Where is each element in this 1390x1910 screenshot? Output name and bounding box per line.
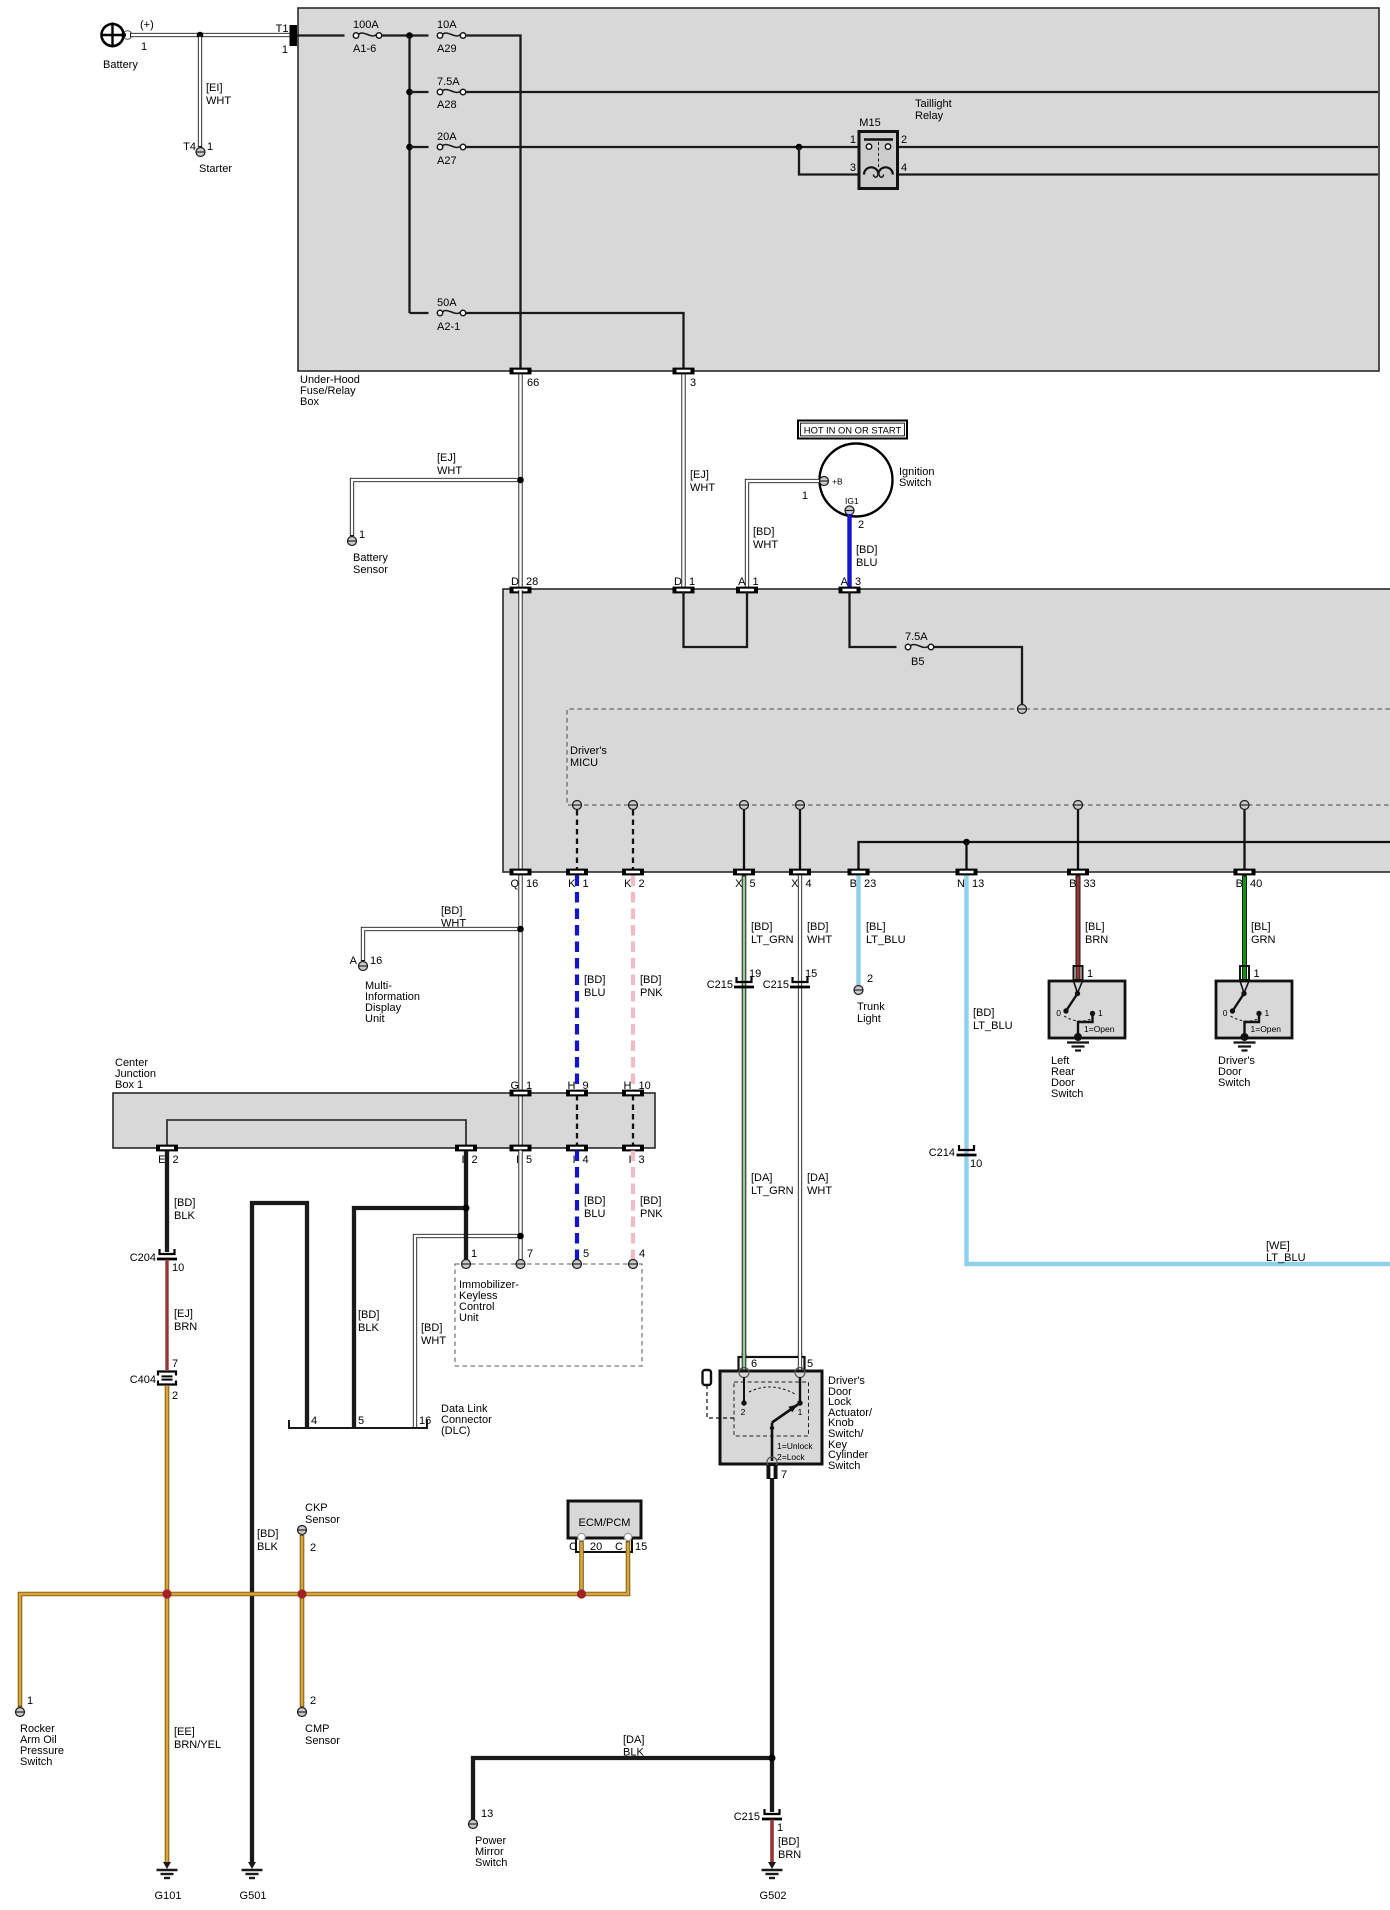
wire B40 internal — [1243, 810, 1245, 869]
wire H9 to I4 inside box (dashed) — [576, 1095, 578, 1146]
svg-text:WHT: WHT — [206, 95, 231, 107]
svg-text:1: 1 — [850, 134, 856, 146]
svg-text:IG1: IG1 — [845, 496, 859, 506]
thick black wire G501 riser and DLC pin 4 loop — [252, 1203, 307, 1864]
terminal IG1 pin 2 — [845, 496, 864, 531]
wire B5 to MICU internal terminal — [934, 647, 1022, 704]
svg-text:1: 1 — [777, 1822, 783, 1834]
svg-text:C: C — [615, 1541, 623, 1553]
svg-text:[DA]: [DA] — [623, 1734, 644, 1746]
svg-text:15: 15 — [805, 968, 817, 980]
svg-text:GRN: GRN — [1251, 934, 1276, 946]
svg-text:BLK: BLK — [623, 1747, 644, 1759]
svg-text:Switch: Switch — [899, 477, 931, 489]
svg-text:100A: 100A — [353, 19, 379, 31]
wire E2 to I2 inside junction box — [167, 1120, 466, 1148]
inline connector C215 pin 19 — [707, 968, 762, 991]
svg-text:7.5A: 7.5A — [437, 76, 460, 88]
wire K1 internal (dashed) — [576, 810, 578, 869]
svg-text:5: 5 — [750, 878, 756, 890]
svg-text:1: 1 — [802, 490, 808, 502]
svg-text:20: 20 — [590, 1541, 602, 1553]
svg-text:BLK: BLK — [358, 1322, 379, 1334]
svg-text:3: 3 — [639, 1154, 645, 1166]
wire 10A output down to pin 66 — [466, 36, 521, 370]
svg-text:2: 2 — [639, 878, 645, 890]
svg-text:(+): (+) — [140, 19, 154, 31]
svg-text:1=Unlock: 1=Unlock — [777, 1441, 813, 1451]
svg-text:BLU: BLU — [856, 557, 877, 569]
svg-text:[DA]: [DA] — [751, 1172, 772, 1184]
wire relay pin 4 to box edge — [897, 173, 1378, 175]
wire E2 down (BLK) — [167, 1151, 195, 1253]
wire — [410, 146, 429, 148]
wire Q16 to G1 (WHT double) — [441, 876, 521, 1094]
svg-text:3: 3 — [855, 576, 861, 588]
svg-text:2: 2 — [172, 1390, 178, 1402]
svg-text:Battery: Battery — [353, 552, 388, 564]
svg-text:40: 40 — [1250, 878, 1262, 890]
svg-text:1: 1 — [753, 576, 759, 588]
svg-text:[BD]: [BD] — [358, 1309, 379, 1321]
svg-text:1: 1 — [689, 576, 695, 588]
wire I5 to immobilizer pin 7 (WHT double) — [518, 1151, 522, 1261]
svg-text:A1-6: A1-6 — [353, 43, 376, 55]
svg-text:1: 1 — [1265, 1008, 1270, 1018]
power mirror switch terminal 13 — [469, 1808, 508, 1869]
svg-text:4: 4 — [806, 878, 812, 890]
internal bus wire to B23 — [859, 842, 1390, 869]
terminal +B pin 1 — [802, 477, 843, 503]
svg-text:[EJ]: [EJ] — [437, 452, 456, 464]
terminal X4 internal — [796, 801, 805, 810]
svg-text:[EI]: [EI] — [206, 82, 223, 94]
svg-text:WHT: WHT — [421, 1335, 446, 1347]
svg-text:A28: A28 — [437, 99, 457, 111]
svg-text:Q: Q — [510, 878, 519, 890]
svg-text:[WE]: [WE] — [1266, 1240, 1290, 1252]
svg-text:[BD]: [BD] — [257, 1528, 278, 1540]
connector B23 — [848, 869, 870, 876]
svg-text:2: 2 — [867, 973, 873, 985]
svg-text:1: 1 — [1254, 968, 1260, 980]
svg-text:[EJ]: [EJ] — [690, 469, 709, 481]
svg-text:G101: G101 — [155, 1890, 182, 1902]
svg-text:Starter: Starter — [199, 163, 232, 175]
wire relay pin 2 to box edge — [897, 146, 1378, 148]
wire X5 internal — [743, 810, 745, 869]
svg-text:G501: G501 — [240, 1890, 267, 1902]
svg-text:[BL]: [BL] — [866, 921, 886, 933]
svg-text:PNK: PNK — [640, 987, 663, 999]
ground G502 — [760, 1862, 787, 1902]
svg-text:LT_BLU: LT_BLU — [973, 1020, 1013, 1032]
Driver's MICU box — [503, 589, 1390, 872]
svg-text:C215: C215 — [707, 979, 733, 991]
svg-text:[BD]: [BD] — [640, 1195, 661, 1207]
wire IG1 to A3 (BLU) — [850, 514, 878, 589]
svg-text:WHT: WHT — [807, 934, 832, 946]
junction node battery/starter — [197, 32, 204, 39]
svg-text:1: 1 — [526, 1080, 532, 1092]
wire N13 internal — [965, 842, 967, 869]
connector K1 — [566, 869, 588, 876]
wire I4 to immobilizer pin 5 (BLU dashed) — [577, 1151, 605, 1261]
terminal B5 output — [1018, 705, 1027, 714]
svg-text:Sensor: Sensor — [305, 1735, 340, 1747]
svg-text:CMP: CMP — [305, 1723, 329, 1735]
svg-text:2: 2 — [901, 134, 907, 146]
svg-text:9: 9 — [583, 1080, 589, 1092]
svg-text:10A: 10A — [437, 19, 457, 31]
wire — [410, 91, 429, 93]
wire — [382, 34, 429, 36]
junction node MID branch — [517, 926, 524, 933]
wire to starter (WHT double line) — [200, 35, 231, 147]
svg-text:[BL]: [BL] — [1085, 921, 1105, 933]
svg-text:CKP: CKP — [305, 1502, 328, 1514]
svg-text:2: 2 — [173, 1154, 179, 1166]
junction node N13 — [963, 839, 970, 846]
svg-text:2: 2 — [741, 1407, 746, 1417]
connector Q16 — [510, 869, 532, 876]
terminal A16 multi-information display unit — [350, 955, 420, 1025]
svg-text:16: 16 — [370, 955, 382, 967]
wire D28 to Q16 inside MICU (WHT double) — [518, 590, 522, 871]
inline connector C404 — [130, 1358, 178, 1402]
fuse 10A A29 — [437, 19, 466, 55]
svg-text:10: 10 — [970, 1158, 982, 1170]
Center Junction Box 1 — [113, 1093, 655, 1148]
svg-text:C204: C204 — [130, 1252, 156, 1264]
wire 20A to relay pin 1 — [466, 146, 860, 148]
svg-text:[BD]: [BD] — [584, 1195, 605, 1207]
rocker arm oil pressure switch terminal — [16, 1695, 65, 1768]
svg-text:10: 10 — [172, 1262, 184, 1274]
svg-text:A27: A27 — [437, 155, 457, 167]
svg-text:Taillight: Taillight — [915, 98, 952, 110]
svg-text:Sensor: Sensor — [353, 564, 388, 576]
svg-text:13: 13 — [972, 878, 984, 890]
svg-text:Battery: Battery — [103, 59, 138, 71]
wire G1 to I5 through box (WHT double) — [518, 1093, 522, 1148]
wire branch to relay pin 3 — [799, 147, 860, 175]
svg-text:Switch: Switch — [1051, 1088, 1083, 1100]
svg-text:E: E — [158, 1154, 165, 1166]
junction node — [406, 89, 413, 96]
svg-text:HOT IN ON OR START: HOT IN ON OR START — [804, 425, 902, 436]
svg-text:[BD]: [BD] — [973, 1007, 994, 1019]
svg-text:1: 1 — [798, 1407, 803, 1417]
key cylinder symbol — [703, 1370, 735, 1418]
svg-text:[EE]: [EE] — [174, 1726, 195, 1738]
svg-text:15: 15 — [635, 1541, 647, 1553]
svg-text:WHT: WHT — [807, 1185, 832, 1197]
immobilizer terminal 1 — [462, 1260, 471, 1269]
vertical fuse bus — [408, 36, 410, 314]
wire K2 internal (dashed) — [632, 810, 634, 869]
svg-text:7: 7 — [172, 1358, 178, 1370]
wire C215 to G502 (BRN) — [772, 1820, 801, 1865]
svg-text:Box 1: Box 1 — [115, 1079, 143, 1091]
left rear door switch — [1049, 981, 1125, 1100]
svg-text:2: 2 — [858, 519, 864, 531]
svg-text:PNK: PNK — [640, 1208, 663, 1220]
immobilizer terminal 4 — [629, 1260, 638, 1269]
wire I5 branch to DLC pin 16 (WHT double) — [415, 1236, 521, 1428]
driver's door lock actuator box — [720, 1368, 873, 1473]
HOT IN ON OR START tag — [798, 421, 907, 439]
svg-text:5: 5 — [526, 1154, 532, 1166]
wire B40 to driver's door switch (GRN) — [1245, 876, 1276, 982]
ignition switch — [820, 444, 935, 517]
connector G1 — [510, 1090, 532, 1097]
svg-text:66: 66 — [527, 377, 539, 389]
connector N13 — [956, 869, 978, 876]
svg-text:H: H — [624, 1080, 632, 1092]
svg-text:6: 6 — [751, 1358, 757, 1370]
fuse 7.5A A28 — [437, 76, 466, 111]
svg-text:MICU: MICU — [570, 757, 598, 769]
svg-text:C215: C215 — [734, 1811, 760, 1823]
driver's door switch connector pin 1 — [1240, 966, 1260, 980]
svg-text:1: 1 — [282, 44, 288, 56]
svg-text:D: D — [511, 576, 519, 588]
wire B33 to left rear door switch (BRN) — [1078, 876, 1108, 982]
svg-text:7: 7 — [781, 1469, 787, 1481]
wire +B to A1 (WHT double) — [747, 481, 821, 589]
junction node bus/C404 wire — [162, 1589, 171, 1598]
svg-text:Trunk: Trunk — [857, 1001, 885, 1013]
svg-text:C404: C404 — [130, 1374, 156, 1386]
svg-text:Light: Light — [857, 1013, 881, 1025]
svg-text:Unit: Unit — [459, 1312, 479, 1324]
fuse 100A A1-6 — [353, 19, 382, 55]
svg-text:T4: T4 — [183, 141, 196, 153]
trunk light terminal — [854, 973, 885, 1025]
svg-text:B: B — [850, 878, 857, 890]
svg-text:(DLC): (DLC) — [441, 1425, 470, 1437]
svg-text:3: 3 — [850, 162, 856, 174]
Driver's MICU inner dashed boundary — [567, 709, 1390, 805]
connector 3 — [673, 368, 695, 375]
svg-text:G: G — [510, 1080, 519, 1092]
connector B33 — [1067, 869, 1089, 876]
connector B40 — [1234, 869, 1256, 876]
svg-text:Relay: Relay — [915, 110, 944, 122]
wire 50A output down to pin 3 — [466, 313, 684, 369]
terminal K2 internal — [629, 801, 638, 810]
svg-text:Sensor: Sensor — [305, 1514, 340, 1526]
wire A3 to fuse B5 — [850, 592, 897, 647]
wire D1 to A1 inside MICU — [684, 592, 748, 647]
svg-text:[BD]: [BD] — [174, 1197, 195, 1209]
svg-text:A29: A29 — [437, 43, 457, 55]
terminal B40 internal — [1240, 801, 1249, 810]
wire H10 to I3 inside box (dashed) — [632, 1095, 634, 1146]
svg-text:1: 1 — [141, 41, 147, 53]
connector A1 — [736, 587, 758, 594]
svg-text:1=Open: 1=Open — [1084, 1024, 1115, 1034]
svg-text:[BD]: [BD] — [640, 974, 661, 986]
svg-text:1: 1 — [27, 1695, 33, 1707]
inline connector C215 pin 1 — [734, 1809, 783, 1834]
connector H9 — [566, 1090, 588, 1097]
wire X5 down to door lock pin 6 (LT_GRN) — [744, 876, 794, 1372]
svg-text:[BD]: [BD] — [807, 921, 828, 933]
CMP sensor terminal — [298, 1695, 341, 1747]
svg-text:D: D — [674, 576, 682, 588]
svg-text:4: 4 — [311, 1415, 317, 1427]
junction node bus/C20 wire — [577, 1589, 586, 1598]
ground G501 — [240, 1862, 267, 1902]
horizontal BRN/YEL bus — [20, 1541, 628, 1707]
svg-text:4: 4 — [901, 162, 907, 174]
connector I2 — [455, 1145, 477, 1152]
wire to battery sensor (WHT double) — [352, 480, 521, 536]
junction node door lock / power mirror — [769, 1755, 776, 1762]
inline connector C215 pin 15 — [763, 968, 818, 991]
svg-text:BRN: BRN — [174, 1321, 197, 1333]
svg-text:M15: M15 — [859, 117, 880, 129]
wire B23 to trunk light (LT_BLU) — [859, 876, 906, 986]
wire 3 to D1 (WHT double) — [684, 375, 716, 590]
svg-text:LT_GRN: LT_GRN — [751, 934, 794, 946]
terminal X5 internal — [740, 801, 749, 810]
svg-text:BLU: BLU — [584, 1208, 605, 1220]
svg-text:WHT: WHT — [753, 539, 778, 551]
ECM/PCM — [568, 1501, 641, 1538]
svg-text:C215: C215 — [763, 979, 789, 991]
ECM connector strip C20 / C15 — [569, 1539, 647, 1553]
inline connector C204 pin 10 — [130, 1249, 185, 1274]
wire I3 to immobilizer pin 4 (PNK dashed) — [633, 1151, 663, 1261]
thick black wire DLC pin 5 to I2 junction — [354, 1208, 466, 1428]
svg-text:BRN/YEL: BRN/YEL — [174, 1739, 221, 1751]
fuse 50A A2-1 — [437, 297, 466, 333]
svg-text:[BL]: [BL] — [1251, 921, 1271, 933]
svg-text:1=Open: 1=Open — [1251, 1024, 1282, 1034]
svg-text:1: 1 — [471, 1248, 477, 1260]
svg-text:23: 23 — [864, 878, 876, 890]
svg-text:1: 1 — [359, 529, 365, 541]
connector I5 — [510, 1145, 532, 1152]
wire N13 (LT_BLU) long run — [967, 876, 1390, 1265]
svg-text:B: B — [1069, 878, 1076, 890]
taillight relay M15 — [850, 98, 952, 189]
svg-text:1: 1 — [583, 878, 589, 890]
svg-text:Box: Box — [300, 396, 319, 408]
junction node relay branch — [796, 144, 803, 151]
svg-text:T1: T1 — [276, 23, 289, 35]
svg-text:[BD]: [BD] — [856, 544, 877, 556]
connector A3 — [839, 587, 861, 594]
svg-text:Switch: Switch — [1218, 1077, 1250, 1089]
svg-text:C214: C214 — [929, 1147, 955, 1159]
wire 66 to D28 (WHT double) — [437, 375, 521, 590]
wire pin 7 down to C215 (BLK) — [770, 1479, 774, 1812]
left rear door switch connector pin 1 — [1074, 966, 1094, 980]
svg-text:13: 13 — [481, 1808, 493, 1820]
svg-text:[BD]: [BD] — [441, 905, 462, 917]
svg-text:4: 4 — [583, 1154, 589, 1166]
terminal K1 internal — [573, 801, 582, 810]
wire BLK to G501 label — [257, 1528, 278, 1553]
wire C404 to G101 (BRN/YEL) — [167, 1385, 221, 1864]
svg-text:A: A — [841, 576, 849, 588]
svg-text:LT_BLU: LT_BLU — [866, 934, 906, 946]
connector 66 — [510, 368, 532, 375]
wire 50A branch — [410, 312, 429, 314]
svg-text:C: C — [569, 1541, 577, 1553]
door lock pin 7 connector — [767, 1465, 788, 1481]
svg-text:7.5A: 7.5A — [905, 631, 928, 643]
connector T1 — [276, 23, 297, 56]
wire B33 internal — [1077, 810, 1079, 869]
svg-text:[BD]: [BD] — [584, 974, 605, 986]
svg-text:A: A — [738, 576, 746, 588]
connector I3 — [622, 1145, 644, 1152]
terminal B33 internal — [1074, 801, 1083, 810]
connector K2 — [622, 869, 644, 876]
svg-text:2: 2 — [472, 1154, 478, 1166]
power mirror switch wire (BLK) — [473, 1734, 772, 1820]
svg-text:LT_GRN: LT_GRN — [751, 1185, 794, 1197]
driver's door switch — [1216, 981, 1292, 1089]
connector E2 — [156, 1145, 178, 1152]
svg-text:28: 28 — [526, 576, 538, 588]
svg-text:ECM/PCM: ECM/PCM — [579, 1517, 631, 1529]
ECM terminal circles — [578, 1533, 585, 1540]
svg-text:Switch: Switch — [828, 1460, 860, 1472]
immobilizer terminal 5 — [573, 1260, 582, 1269]
svg-text:7: 7 — [527, 1248, 533, 1260]
svg-text:[BD]: [BD] — [753, 526, 774, 538]
svg-text:[DA]: [DA] — [807, 1172, 828, 1184]
connector I4 — [566, 1145, 588, 1152]
svg-text:WHT: WHT — [437, 465, 462, 477]
data link connector DLC — [289, 1403, 492, 1437]
wire to multi-information display (WHT double) — [363, 929, 521, 961]
svg-text:Driver's: Driver's — [570, 745, 607, 757]
svg-text:19: 19 — [749, 968, 761, 980]
connector D1 — [673, 587, 695, 594]
starter terminal T4 — [183, 141, 232, 175]
junction node — [406, 144, 413, 151]
svg-text:[EJ]: [EJ] — [174, 1308, 193, 1320]
immobilizer-keyless control unit — [455, 1264, 642, 1366]
svg-text:BRN: BRN — [778, 1849, 801, 1861]
svg-text:BRN: BRN — [1085, 934, 1108, 946]
svg-text:H: H — [568, 1080, 576, 1092]
svg-text:Switch: Switch — [20, 1756, 52, 1768]
battery — [101, 19, 154, 71]
svg-text:50A: 50A — [437, 297, 457, 309]
svg-text:4: 4 — [639, 1248, 645, 1260]
svg-text:+B: +B — [832, 477, 843, 487]
svg-text:BLK: BLK — [174, 1210, 195, 1222]
inline connector C214 pin 10 — [929, 1145, 983, 1170]
svg-text:10: 10 — [639, 1080, 651, 1092]
wire K2 to H10 (PNK dashed) — [633, 876, 663, 1094]
svg-text:BLU: BLU — [584, 987, 605, 999]
junction node bus — [406, 32, 413, 39]
svg-text:[BD]: [BD] — [421, 1322, 442, 1334]
wire X5 continues into door lock bracket (LT_GRN) — [739, 1353, 814, 1371]
connector X5 — [733, 869, 755, 876]
ground G101 — [155, 1862, 182, 1902]
svg-text:B: B — [1236, 878, 1243, 890]
